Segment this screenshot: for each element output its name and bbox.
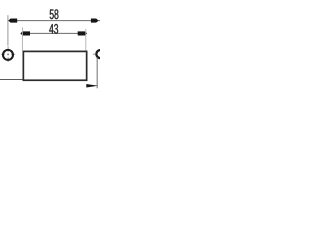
extension line 43 right [85, 29, 87, 51]
left circle centerline vertical segments [7, 46, 9, 51]
dimension 43: right arrowhead [78, 31, 88, 35]
dimension 43: left arrowhead [20, 31, 30, 35]
left circle centerline horizontal segments [1, 53, 5, 55]
dimension 58: left arrowhead [8, 19, 17, 23]
extension / centerline left (x=8) from dim 58 down through circle [7, 15, 9, 45]
right circle left crosshair tick [93, 53, 96, 55]
technical dimension drawing 100x100 [0, 0, 100, 100]
bottom right arrowhead [86, 84, 98, 88]
dimension 58: right arrowhead [91, 19, 99, 23]
extension line 43 left [21, 27, 23, 50]
vertical line from right circle down [96, 57, 98, 88]
left circle (thick ring) [3, 50, 13, 60]
dimension 43: dimension line [22, 32, 86, 34]
lower-left horizontal line running off image [0, 79, 23, 81]
dimension 43: label [49, 24, 53, 33]
rectangle (plate outline) [23, 51, 86, 80]
dimension 58: label [50, 10, 54, 20]
dimension 58: dimension line [8, 20, 100, 22]
right circle (thick ring, clipped at edge) [96, 50, 104, 58]
